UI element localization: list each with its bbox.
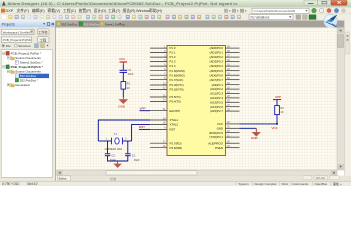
svg-text:(A15)P2.7: (A15)P2.7 bbox=[210, 109, 223, 113]
svg-text:P3.3(INT1): P3.3(INT1) bbox=[170, 83, 184, 87]
svg-text:System: System bbox=[239, 182, 250, 186]
svg-text:(TXD)P3.1: (TXD)P3.1 bbox=[209, 135, 223, 139]
svg-text:C:\Users\Public\Documents\Alti: C:\Users\Public\Documents\Alti bbox=[254, 9, 296, 13]
svg-text:XTAL2: XTAL2 bbox=[170, 123, 179, 127]
svg-text:(AD4)P0.4: (AD4)P0.4 bbox=[210, 64, 224, 68]
svg-text:PCB_Project1.PrjPcb *: PCB_Project1.PrjPcb * bbox=[11, 52, 42, 56]
svg-text:RST: RST bbox=[139, 125, 145, 129]
wire VCC pin to R2 junction bbox=[240, 123, 278, 125]
ground (crystal) bbox=[113, 161, 121, 168]
svg-text:Grid:10: Grid:10 bbox=[27, 182, 38, 186]
svg-text:标准: 标准 bbox=[110, 176, 116, 181]
svg-text:(AD0)P0.0: (AD0)P0.0 bbox=[210, 46, 224, 50]
svg-text:P1.5(MOSI): P1.5(MOSI) bbox=[170, 69, 185, 73]
svg-text:面板 »: 面板 » bbox=[333, 181, 342, 186]
op IC U1 AT89S52 body bbox=[167, 46, 226, 156]
svg-text:10uF: 10uF bbox=[128, 72, 134, 76]
svg-text:文件(F): 文件(F) bbox=[17, 8, 30, 13]
svg-text:(AD1)P0.1: (AD1)P0.1 bbox=[210, 51, 224, 55]
svg-text:GND: GND bbox=[217, 126, 223, 130]
svg-text:399,190: 399,190 bbox=[316, 176, 326, 180]
svg-text:552.SchDoc: 552.SchDoc bbox=[61, 23, 77, 27]
svg-text:P3.5(T1): P3.5(T1) bbox=[170, 95, 181, 99]
wire node A down to C2 bbox=[107, 141, 109, 153]
svg-text:P1.0: P1.0 bbox=[170, 46, 176, 50]
resistor R2 1K bbox=[275, 106, 285, 115]
wire VCC to C3 bbox=[122, 65, 124, 70]
crystal Y1 11.0592M bbox=[105, 132, 128, 151]
svg-text:VCC: VCC bbox=[217, 122, 223, 126]
Projects panel header bbox=[0, 20, 56, 27]
svg-text:工具(T): 工具(T) bbox=[108, 8, 121, 13]
ground GND (reset chain) bbox=[118, 97, 128, 108]
svg-text:(AD7)P0.7: (AD7)P0.7 bbox=[210, 78, 224, 82]
svg-text:P1.4: P1.4 bbox=[170, 64, 176, 68]
junction node VCC bbox=[272, 123, 279, 130]
svg-text:(A12)P2.4: (A12)P2.4 bbox=[210, 96, 223, 100]
svg-text:VPP: VPP bbox=[275, 95, 281, 99]
svg-text:DXP: DXP bbox=[6, 9, 14, 13]
wire R1 to GND bbox=[122, 89, 124, 97]
wire crystal left stub bbox=[98, 140, 111, 142]
svg-text:编辑(E): 编辑(E) bbox=[32, 8, 45, 13]
wire crystal right stub bbox=[123, 140, 132, 142]
svg-text:PSEN: PSEN bbox=[215, 146, 223, 150]
svg-text:(A11)P2.3: (A11)P2.3 bbox=[210, 92, 223, 96]
IC U1 left pin stubs bbox=[150, 48, 167, 148]
svg-text:工程(C): 工程(C) bbox=[63, 8, 77, 13]
menu bar bbox=[0, 7, 351, 14]
svg-text:Instruments: Instruments bbox=[293, 182, 309, 186]
svg-text:C1: C1 bbox=[132, 153, 136, 157]
wire junction up to R2 bbox=[276, 115, 278, 124]
capacitor C3 10uF bbox=[120, 68, 134, 76]
net label VPP + wire to EA pin bbox=[140, 107, 151, 111]
svg-text:Structure: Structure bbox=[18, 44, 31, 48]
svg-text:552.PcbDoc: 552.PcbDoc bbox=[84, 23, 100, 27]
schematic canvas with grid bbox=[57, 27, 338, 170]
svg-text:帮助(H): 帮助(H) bbox=[149, 8, 163, 13]
svg-text:P1.3: P1.3 bbox=[170, 60, 176, 64]
svg-text:Altium Designer (16.0) - C:\Us: Altium Designer (16.0) - C:\Users\Public… bbox=[8, 1, 239, 6]
editor tab strip bbox=[57, 176, 351, 182]
net label RST + wire to RST pin bbox=[139, 125, 150, 129]
svg-text:SCH: SCH bbox=[282, 182, 288, 186]
svg-text:Workspace1.DsnWrk: Workspace1.DsnWrk bbox=[3, 30, 32, 34]
right small toolbar + path combo bbox=[224, 8, 346, 13]
svg-text:VCC: VCC bbox=[272, 126, 279, 130]
Projects panel body bbox=[0, 20, 56, 181]
project tree bbox=[1, 50, 53, 178]
status bar bbox=[0, 181, 351, 186]
svg-text:工作台: 工作台 bbox=[38, 30, 48, 35]
svg-text:XTAL1: XTAL1 bbox=[170, 118, 179, 122]
svg-text:ALE/PROG: ALE/PROG bbox=[208, 141, 224, 145]
svg-text:GND: GND bbox=[251, 136, 259, 140]
svg-text:OpenBus: OpenBus bbox=[315, 182, 328, 186]
power port VCC (pull-up) bbox=[273, 95, 281, 105]
svg-text:VPP: VPP bbox=[140, 107, 146, 111]
svg-text:X:790 Y:310: X:790 Y:310 bbox=[2, 182, 20, 186]
svg-text:VCC: VCC bbox=[119, 57, 126, 61]
svg-text:No Variations: No Variations bbox=[251, 15, 270, 19]
wire C3 to R1 bbox=[122, 72, 124, 81]
svg-text:报告(R): 报告(R) bbox=[123, 8, 137, 13]
svg-text:P3.2(INT0): P3.2(INT0) bbox=[170, 88, 184, 92]
svg-text:(AD5)P0.5: (AD5)P0.5 bbox=[210, 69, 224, 73]
wire XTAL1 bbox=[98, 120, 150, 141]
svg-text:Source Documents: Source Documents bbox=[15, 70, 41, 74]
svg-text:C3: C3 bbox=[128, 68, 132, 72]
svg-text:(A10)P2.2: (A10)P2.2 bbox=[210, 87, 223, 91]
svg-text:R1: R1 bbox=[127, 82, 131, 86]
svg-text:552.PcbDoc *: 552.PcbDoc * bbox=[20, 79, 39, 83]
Altium swallow logo bbox=[324, 14, 338, 28]
svg-text:(A14)P2.6: (A14)P2.6 bbox=[210, 105, 223, 109]
svg-text:P3.7(RD): P3.7(RD) bbox=[170, 141, 182, 145]
main toolbar bbox=[0, 14, 351, 21]
svg-text:工程: 工程 bbox=[40, 37, 47, 42]
pin numbers right bbox=[227, 45, 230, 148]
svg-text:P1.2: P1.2 bbox=[170, 55, 176, 59]
svg-text:Design Compiler: Design Compiler bbox=[255, 182, 277, 186]
pin numbers left bbox=[163, 45, 166, 148]
svg-text:Editor: Editor bbox=[59, 177, 67, 181]
svg-text:P1.6(MISO): P1.6(MISO) bbox=[170, 73, 185, 77]
svg-text:P3.4(T0): P3.4(T0) bbox=[170, 100, 181, 104]
ground GND (right) bbox=[251, 128, 261, 140]
svg-text:Y1: Y1 bbox=[114, 132, 118, 136]
svg-text:Source Documents: Source Documents bbox=[15, 56, 41, 60]
svg-text:(RXD)P3.0: (RXD)P3.0 bbox=[209, 131, 223, 135]
svg-text:P1.7(SCK): P1.7(SCK) bbox=[170, 78, 184, 82]
svg-text:GND: GND bbox=[118, 104, 126, 108]
capacitor C2 30pF bbox=[105, 153, 116, 162]
window buttons min max close bbox=[304, 0, 347, 5]
svg-text:设计(D): 设计(D) bbox=[94, 8, 108, 13]
svg-text:R2: R2 bbox=[280, 106, 284, 110]
svg-text:P1.1: P1.1 bbox=[170, 51, 176, 55]
svg-text:察看(V): 察看(V) bbox=[48, 8, 61, 13]
wire XTAL2 bbox=[132, 124, 150, 141]
wire node B down to C1 bbox=[127, 141, 129, 153]
document tab bar bbox=[56, 20, 344, 27]
horizontal scrollbar bbox=[57, 170, 338, 176]
resistor R1 1K bbox=[121, 82, 131, 90]
svg-text:(AD6)P0.6: (AD6)P0.6 bbox=[210, 73, 224, 77]
schematic vertical scrollbar bbox=[337, 27, 344, 170]
svg-text:Sheet1.SchDoc: Sheet1.SchDoc bbox=[105, 23, 126, 27]
svg-text:Generated: Generated bbox=[15, 83, 30, 87]
svg-text:PCB_Project2.PrjPcb: PCB_Project2.PrjPcb bbox=[3, 38, 32, 42]
svg-text:Sheet1.SchDoc *: Sheet1.SchDoc * bbox=[20, 61, 44, 65]
svg-text:1K: 1K bbox=[280, 110, 283, 114]
svg-text:1K: 1K bbox=[127, 86, 130, 90]
svg-text:Projects: Projects bbox=[2, 23, 15, 27]
power port VCC (reset chain) bbox=[119, 57, 127, 65]
window title bar bbox=[0, 0, 351, 7]
IC U1 right pin stubs bbox=[226, 48, 240, 148]
svg-text:552.SchDoc: 552.SchDoc bbox=[20, 74, 37, 78]
svg-text:RST: RST bbox=[170, 128, 176, 132]
svg-text:P3.6(WR): P3.6(WR) bbox=[170, 146, 183, 150]
svg-text:(AD3)P0.3: (AD3)P0.3 bbox=[210, 60, 224, 64]
svg-text:File: File bbox=[6, 44, 11, 48]
svg-text:EA/VPP: EA/VPP bbox=[170, 109, 181, 113]
wire ground rail bbox=[108, 156, 128, 161]
svg-text:放置(P): 放置(P) bbox=[79, 8, 92, 13]
svg-text:(AD2)P0.2: (AD2)P0.2 bbox=[210, 55, 224, 59]
svg-text:C2: C2 bbox=[112, 153, 116, 157]
capacitor C1 30pF bbox=[125, 153, 140, 162]
svg-text:PCB_Project2.PrjPcb *: PCB_Project2.PrjPcb * bbox=[11, 65, 44, 69]
svg-text:30pF: 30pF bbox=[134, 159, 140, 162]
right dock strip bbox=[344, 20, 351, 175]
svg-text:Window: Window bbox=[136, 9, 150, 13]
wire GND pin bbox=[240, 127, 257, 129]
svg-text:(A9)P2.1: (A9)P2.1 bbox=[212, 83, 224, 87]
svg-text:(A13)P2.5: (A13)P2.5 bbox=[210, 100, 223, 104]
